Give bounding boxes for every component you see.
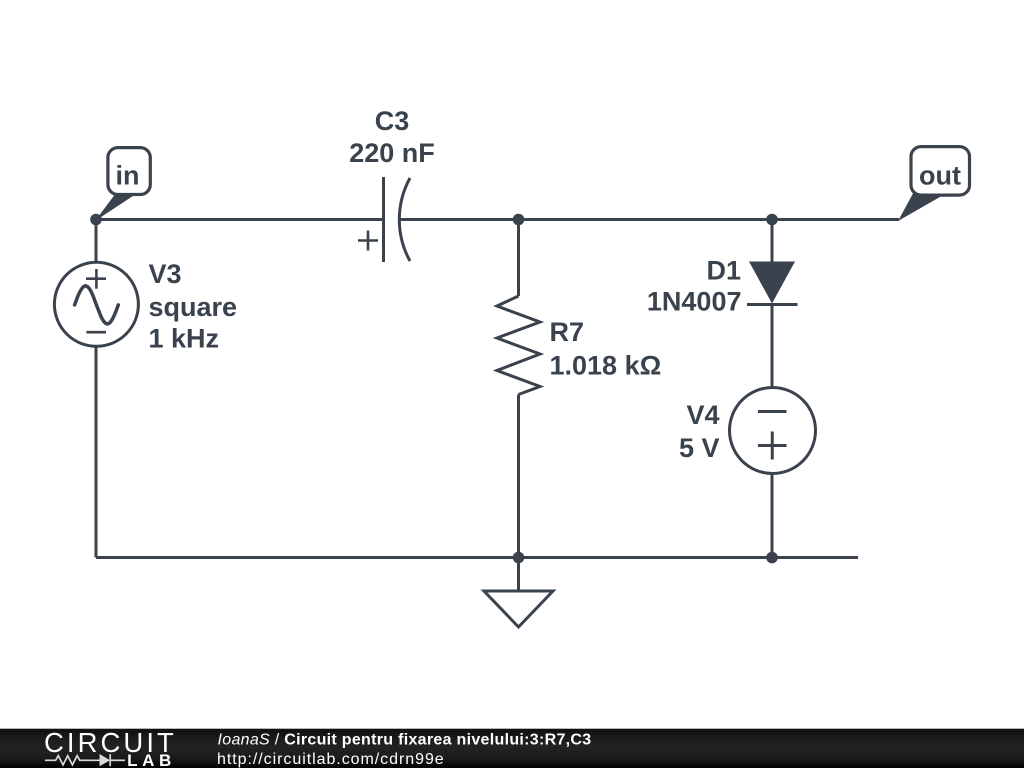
diode D1 [747,262,798,305]
label R7 value [550,317,662,381]
label V3 value [149,259,238,354]
wire ground stub [517,558,520,592]
svg-text:C3: C3 [375,106,410,136]
svg-text:IoanaS / Circuit pentru fixare: IoanaS / Circuit pentru fixarea nivelulu… [218,731,592,748]
wire top net in->C3 [96,218,384,221]
wire left V3 bottom [95,346,98,558]
svg-text:square: square [149,292,238,322]
footer title text [217,731,591,768]
voltage source V4 [730,388,816,474]
wire R7 top [517,220,520,297]
wire left V3 top [95,220,98,264]
wire D1 to V4 [771,305,774,389]
svg-text:220 nF: 220 nF [349,138,435,168]
wire R7 bottom [517,395,520,558]
wire bottom net [96,556,858,559]
svg-text:5 V: 5 V [679,433,720,463]
svg-text:LAB: LAB [127,751,176,768]
label C3 value [349,106,435,168]
node junction top D1 [766,214,778,226]
node junction bottom ground [513,552,525,564]
wire D1 top [771,220,774,264]
svg-text:1.018 kΩ: 1.018 kΩ [550,351,662,381]
svg-text:in: in [116,161,140,191]
logo CIRCUIT LAB [44,727,177,768]
node junction top R7 [513,214,525,226]
svg-text:1 kHz: 1 kHz [149,324,220,354]
node junction bottom V4 [766,552,778,564]
svg-text:out: out [919,161,961,191]
voltage source V3 [54,262,138,346]
svg-text:D1: D1 [706,256,741,286]
label V4 value [679,400,720,463]
wire top net C3->out [400,218,900,221]
svg-text:V3: V3 [149,259,182,289]
capacitor C3 [358,177,410,262]
node junction in [90,214,102,226]
node label out [898,147,970,221]
svg-text:1N4007: 1N4007 [647,287,742,317]
node label in [95,148,150,221]
resistor R7 [497,296,540,395]
svg-text:V4: V4 [686,400,719,430]
wire V4 bottom [771,472,774,558]
svg-text:R7: R7 [550,317,585,347]
ground [484,591,553,627]
label D1 value [647,256,742,317]
svg-text:http://circuitlab.com/cdrn99e: http://circuitlab.com/cdrn99e [217,751,445,768]
